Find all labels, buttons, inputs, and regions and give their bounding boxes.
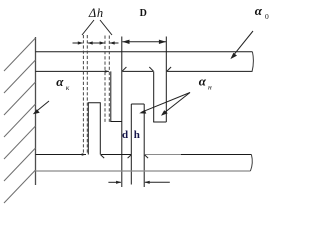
delta-h dimension middle double arrow (88, 41, 105, 44)
dashed displaced-edge line pair 1 (83, 35, 87, 155)
hanging tooth T1 right wall with extension line to bottom dimension (121, 37, 123, 188)
top plate underside right segment (167, 67, 252, 71)
bottom dimension left arrow (108, 181, 121, 184)
svg-text:h: h (134, 129, 140, 141)
delta-h dimension outer-left arrow (73, 41, 84, 44)
delta-h leader line left (82, 20, 94, 35)
bottom plate top edge segment B (101, 155, 132, 159)
hanging tooth T2 bottom (153, 121, 166, 123)
bottom plate top edge segment A (36, 153, 87, 156)
hanging tooth T1 left wall (110, 71, 112, 121)
wall hatching (4, 38, 36, 203)
alpha-n leader arrow to hanging tooth T2 (161, 93, 190, 116)
bottom plate bottom edge (36, 170, 251, 172)
alpha-0 arrow (230, 31, 253, 59)
svg-text:α: α (56, 74, 64, 89)
standing tooth S2 top (131, 103, 144, 105)
delta-h leader line right (100, 20, 112, 35)
dashed displaced-edge line pair 2 (105, 36, 109, 123)
svg-text:D: D (140, 8, 147, 19)
hanging tooth T1 bottom (110, 121, 122, 123)
svg-text:0: 0 (265, 12, 269, 21)
wall (35, 37, 37, 185)
hanging tooth T2 left wall (153, 71, 155, 122)
top plate underside middle segment (122, 67, 153, 71)
bottom dimension right arrow (145, 181, 170, 184)
alpha-k arrow (33, 101, 49, 114)
svg-text:α: α (199, 74, 207, 89)
delta-h dimension outer-right arrow (110, 41, 119, 44)
bottom plate right break edge (250, 155, 252, 172)
svg-text:α: α (255, 3, 263, 18)
D dimension line with both arrowheads (122, 40, 166, 44)
bottom plate top edge segment C (144, 155, 251, 159)
alpha-n leader arrow to standing tooth S2 (139, 93, 190, 114)
top plate underside left segment (36, 70, 110, 73)
svg-text:Δh: Δh (88, 6, 104, 20)
svg-text:d: d (122, 129, 128, 141)
standing tooth S1 (88, 103, 100, 155)
standing tooth S2 left wall with extension down (130, 104, 132, 185)
hanging tooth T2 right wall with extension line up to D dimension (165, 37, 167, 123)
svg-text:κ: κ (66, 83, 70, 92)
standing tooth S2 right wall with extension down (143, 104, 145, 187)
top plate top edge (36, 51, 253, 53)
top plate right break edge (252, 52, 253, 72)
svg-text:н: н (208, 82, 212, 91)
